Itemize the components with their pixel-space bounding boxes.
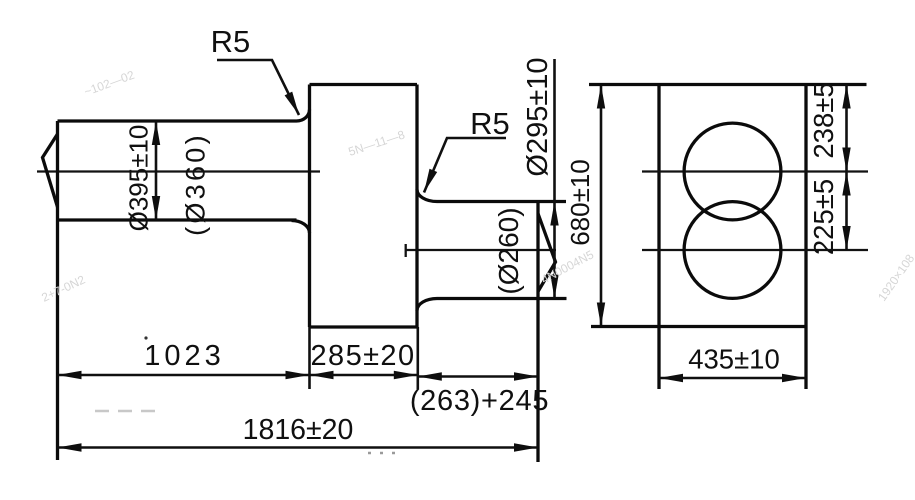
arrow 1816 right [514,443,538,451]
lower circle (crank pin) [684,202,781,299]
svg-text:1023: 1023 [144,340,225,372]
svg-text:Ø295±10: Ø295±10 [522,57,554,176]
arrow 435 left [659,374,683,382]
right end cone point [538,214,556,292]
svg-text:(Ø360): (Ø360) [181,132,211,236]
arrow dia395 down [152,196,160,220]
arrow 263 left [418,372,442,380]
dimension line dia295 [553,59,556,299]
flange top edge [310,83,418,86]
flange right edge [415,85,418,328]
right view top edge with extensions [589,83,867,86]
svg-text:5N—11—8: 5N—11—8 [347,127,407,158]
crankpin centerline end tick [405,244,407,257]
arrow 680 up [597,85,605,109]
watermark dashes [95,410,155,413]
crankpin journal centerline (left view) [405,249,556,251]
arrow dia295 down [550,275,558,299]
right view upper centerline [642,170,868,172]
extension line flange right for dims [416,327,419,389]
fillet R5 top-left (shaft to flange) [297,110,310,122]
fillet bottom-right (flange to journal) [417,299,437,311]
right view lower centerline [642,249,868,251]
arrow 225 up [842,172,850,196]
journal right end face with extension line down [536,202,539,463]
leader R5 right [424,138,506,193]
upper circle (main journal) [684,123,781,220]
arrow R5 top-left [285,92,299,115]
arrow 285 right [394,371,418,379]
dimension line 285 [310,374,418,377]
arrow 1816 left [58,443,82,451]
svg-text:435±10: 435±10 [688,344,780,375]
svg-text:238±5: 238±5 [808,82,839,158]
flange left edge [308,85,311,328]
leader R5 top-left [217,60,299,115]
dimension line 1023 [58,374,310,377]
arrow dia395 up [152,121,160,145]
svg-text:680±10: 680±10 [565,159,595,246]
svg-text:1816±20: 1816±20 [243,414,354,446]
stray dot [144,336,147,339]
right view bottom edge with extension [591,325,806,328]
svg-text:285±20: 285±20 [311,340,416,372]
dimension line dia395 [155,121,158,220]
dimension line 238/225 [845,85,848,251]
arrow 680 down [597,303,605,327]
arrow 1023 left [58,371,82,379]
svg-text:~102—02: ~102—02 [82,68,136,99]
dimension line 435 [659,377,806,380]
shaft bottom edge (dia 395 section) [58,218,297,221]
arrow 238 up [842,85,850,109]
flange bottom edge [310,325,418,328]
arrow 238 down [842,148,850,172]
right view left edge with extension down [657,85,660,390]
shaft top edge (dia 395 section) [58,119,297,122]
svg-text:1920×108: 1920×108 [875,251,915,303]
shaft left end face with extension line down [56,121,59,460]
watermark dots [368,452,395,455]
svg-text:Ø395±10: Ø395±10 [124,125,154,232]
arrow 285 left [310,371,334,379]
arrow R5 right [424,169,437,193]
journal bottom edge with extension [437,297,567,300]
extension line flange left for dims [308,327,311,389]
fillet bottom-left (shaft to flange) [292,221,310,234]
arrow 1023 right [286,371,310,379]
svg-text:(Ø260): (Ø260) [493,207,524,294]
arrow 435 right [782,374,806,382]
svg-text:225±5: 225±5 [808,179,839,255]
main axis centerline (left view) [37,170,320,172]
svg-text:R5: R5 [211,24,251,59]
journal top edge with extension [437,200,566,203]
arrow dia295 up [550,202,558,226]
left end cone point [43,134,58,207]
arrow 225 down [842,226,850,250]
arrow 263 right [514,372,538,380]
dimension line 680 [600,85,603,327]
svg-text:2+7-0N2: 2+7-0N2 [39,272,87,304]
right view right edge with extension down [804,85,807,390]
dimension line 1816 [58,446,539,449]
svg-text:R5: R5 [470,106,510,141]
svg-text:(263)+245: (263)+245 [410,385,549,417]
dimension line 263+245 [418,375,538,378]
svg-text:4N0004N5: 4N0004N5 [539,247,597,286]
fillet R5 top-right (flange to journal) [417,190,437,202]
